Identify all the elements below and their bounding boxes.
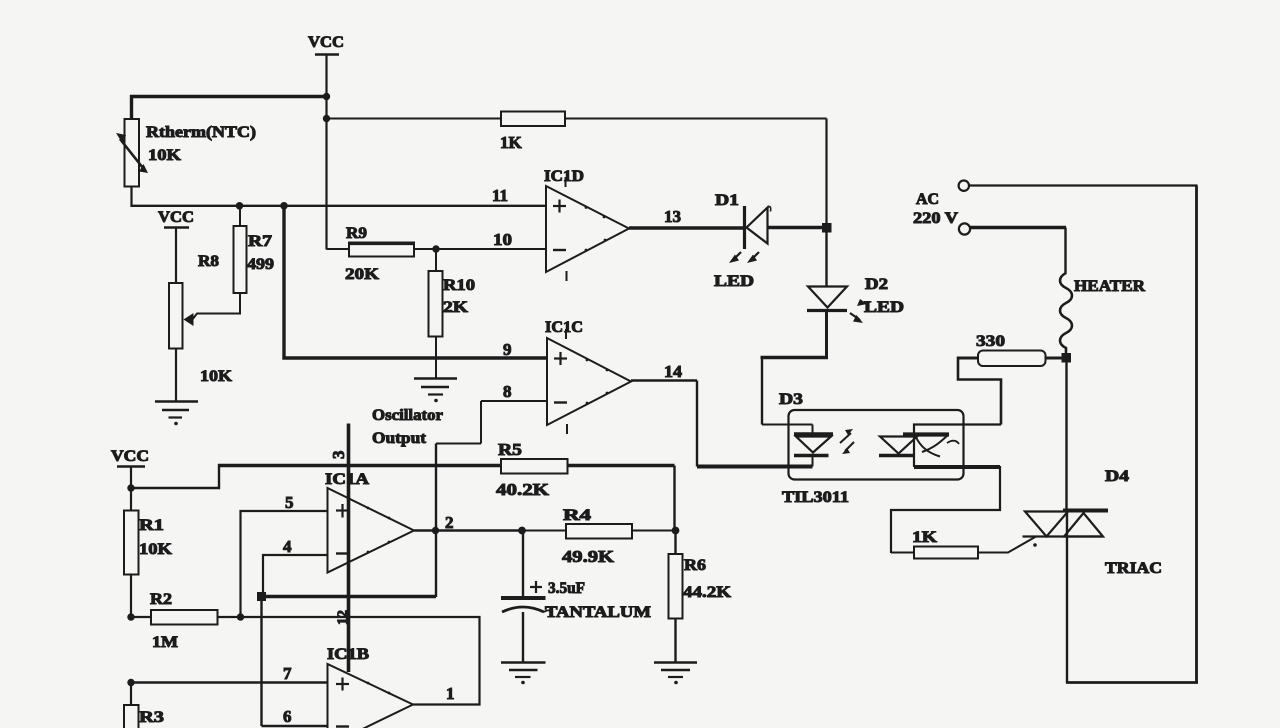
ground (R6) xyxy=(654,663,697,685)
wire xyxy=(825,232,827,287)
wire xyxy=(768,226,825,230)
svg-text:3.5uF: 3.5uF xyxy=(548,580,585,597)
svg-text:TIL3011: TIL3011 xyxy=(782,489,849,506)
junction xyxy=(236,202,244,210)
svg-text:TRIAC: TRIAC xyxy=(1105,560,1162,577)
LED arrows (D1) xyxy=(714,252,759,290)
svg-text:Output: Output xyxy=(372,430,427,447)
label AC 220V xyxy=(913,191,959,227)
diode D2 LED xyxy=(807,276,904,323)
junction xyxy=(127,679,134,686)
svg-text:5: 5 xyxy=(285,493,294,512)
svg-text:1: 1 xyxy=(446,684,455,703)
svg-text:IC1B: IC1B xyxy=(327,646,369,663)
junction xyxy=(432,245,439,252)
AC terminal top xyxy=(959,181,1198,191)
svg-text:D1: D1 xyxy=(715,192,739,209)
svg-text:AC: AC xyxy=(916,191,939,208)
svg-text:R5: R5 xyxy=(498,440,522,459)
svg-text:R6: R6 xyxy=(684,557,706,574)
wire emitter to gate loop xyxy=(891,466,1000,553)
svg-text:IC1D: IC1D xyxy=(544,168,584,185)
optocoupler D3 box xyxy=(779,391,964,506)
svg-text:40.2K: 40.2K xyxy=(496,480,550,499)
op-amp IC1C xyxy=(545,319,631,434)
wire xyxy=(175,229,177,284)
svg-text:13: 13 xyxy=(664,207,681,226)
wire node 9 xyxy=(284,206,548,358)
svg-text:R8: R8 xyxy=(198,253,219,270)
resistor 330 xyxy=(958,333,1063,425)
opto LED xyxy=(794,425,833,467)
svg-text:R9: R9 xyxy=(346,225,367,242)
wire VCC rail xyxy=(218,464,675,467)
junction xyxy=(257,592,266,601)
opto light arrows xyxy=(840,429,854,454)
svg-text:10K: 10K xyxy=(139,541,173,558)
svg-text:20K: 20K xyxy=(345,266,380,283)
resistor R5 40.2K xyxy=(496,440,568,499)
svg-text:D3: D3 xyxy=(779,391,803,408)
junction xyxy=(127,484,134,491)
svg-text:1M: 1M xyxy=(152,634,178,651)
svg-text:2: 2 xyxy=(445,513,454,532)
wire VCC to rail xyxy=(131,464,219,489)
wire gate xyxy=(978,537,1036,553)
wire VCC stem xyxy=(325,55,327,250)
svg-text:10: 10 xyxy=(493,230,512,249)
power VCC (left) xyxy=(111,448,149,467)
junction xyxy=(518,527,526,535)
junction xyxy=(432,527,439,534)
svg-text:220 V: 220 V xyxy=(913,210,959,227)
resistor R4 49.9K xyxy=(522,507,676,566)
potentiometer R8 xyxy=(169,253,241,385)
wire node 2 xyxy=(414,529,522,531)
op-amp IC1A xyxy=(325,471,414,573)
resistor 1K xyxy=(500,112,565,153)
heater coil xyxy=(1060,273,1145,353)
svg-text:3: 3 xyxy=(329,451,348,460)
wire feedback xyxy=(260,595,436,598)
capacitor C1 3.5uF tantalum xyxy=(501,531,651,663)
wire D2 to opto xyxy=(761,311,829,425)
ground (R8) xyxy=(155,402,198,426)
wire pin 7 xyxy=(131,681,328,684)
junction xyxy=(127,613,134,620)
svg-text:D2: D2 xyxy=(865,276,888,293)
wire xyxy=(175,349,177,402)
resistor R7 499 xyxy=(234,206,275,315)
wire right edge xyxy=(1195,186,1198,684)
svg-text:1K: 1K xyxy=(500,133,523,152)
svg-text:2K: 2K xyxy=(443,299,469,316)
op-amp IC1D xyxy=(544,168,629,281)
wire pin 5 xyxy=(241,511,329,618)
wire to triac xyxy=(1065,362,1067,510)
ground (C1) xyxy=(501,663,546,685)
thermistor Rtherm(NTC) 10K xyxy=(116,119,256,187)
label oscillator output xyxy=(372,407,443,447)
svg-text:D4: D4 xyxy=(1105,468,1129,485)
wire oscillator output xyxy=(436,401,548,597)
svg-text:Oscillator: Oscillator xyxy=(372,407,443,424)
wire pin 6 xyxy=(262,725,329,728)
svg-text:7: 7 xyxy=(283,664,292,683)
svg-text:VCC: VCC xyxy=(158,209,194,226)
wire R2 to pin1 loop xyxy=(241,617,480,705)
svg-text:LED: LED xyxy=(714,273,754,290)
diode D1 LED xyxy=(715,192,771,249)
svg-text:44.2K: 44.2K xyxy=(683,584,732,601)
wire bottom xyxy=(1066,681,1198,684)
triac D4 xyxy=(1023,468,1163,683)
op-amp IC1B xyxy=(327,646,413,728)
resistor R9 20K xyxy=(327,225,437,283)
svg-text:8: 8 xyxy=(503,382,512,401)
svg-text:6: 6 xyxy=(283,707,292,726)
svg-text:330: 330 xyxy=(976,333,1005,350)
svg-text:4: 4 xyxy=(283,537,292,556)
svg-text:LED: LED xyxy=(864,299,904,316)
wire node 14 xyxy=(631,381,813,467)
wire R5 to R4 xyxy=(673,466,675,532)
svg-text:10K: 10K xyxy=(148,147,182,164)
wire thermistor top rail xyxy=(132,97,328,121)
ground (R10) xyxy=(414,379,457,403)
svg-text:R4: R4 xyxy=(563,507,591,524)
opto phototransistor xyxy=(879,425,1001,468)
junction xyxy=(1062,353,1072,363)
wire node 13 xyxy=(629,226,744,230)
power VCC (R8) xyxy=(158,209,194,228)
svg-text:49.9K: 49.9K xyxy=(562,547,615,566)
junction xyxy=(237,613,244,620)
resistor R6 44.2K xyxy=(669,531,732,663)
junction xyxy=(323,93,330,100)
svg-text:9: 9 xyxy=(503,340,512,359)
wire node 10 xyxy=(436,248,547,250)
svg-text:IC1A: IC1A xyxy=(325,471,370,488)
svg-text:HEATER: HEATER xyxy=(1074,278,1145,295)
svg-text:R10: R10 xyxy=(443,277,475,294)
svg-text:VCC: VCC xyxy=(111,448,149,465)
junction xyxy=(323,115,330,122)
wire node 11 line xyxy=(130,186,132,207)
svg-text:R7: R7 xyxy=(248,233,272,250)
wire to D1 node xyxy=(825,119,827,225)
resistor R10 2K xyxy=(429,249,476,378)
wire pin 4 xyxy=(263,555,328,597)
svg-text:11: 11 xyxy=(492,186,508,205)
svg-text:10K: 10K xyxy=(200,368,233,385)
svg-text:R3: R3 xyxy=(139,709,164,726)
resistor R1 10K xyxy=(124,488,173,617)
resistor 1K gate xyxy=(891,529,978,559)
svg-text:Rtherm(NTC): Rtherm(NTC) xyxy=(146,124,256,141)
resistor R3 xyxy=(124,683,164,728)
svg-text:VCC: VCC xyxy=(308,34,344,51)
power VCC top xyxy=(308,34,344,55)
wire pin 6 drop xyxy=(260,597,262,727)
wire pin3/12 power line xyxy=(329,424,351,673)
svg-text:TANTALUM: TANTALUM xyxy=(545,604,651,621)
svg-text:R2: R2 xyxy=(150,591,172,608)
svg-text:499: 499 xyxy=(247,256,274,273)
svg-text:IC1C: IC1C xyxy=(545,319,583,336)
resistor R2 1M xyxy=(131,591,241,651)
wire 1K rail xyxy=(327,118,827,120)
svg-text:1K: 1K xyxy=(912,529,938,546)
junction xyxy=(822,223,832,233)
svg-text:R1: R1 xyxy=(139,517,164,534)
AC terminal bottom xyxy=(959,223,1066,274)
junction xyxy=(280,202,288,210)
junction xyxy=(672,527,680,535)
svg-text:14: 14 xyxy=(664,362,683,381)
